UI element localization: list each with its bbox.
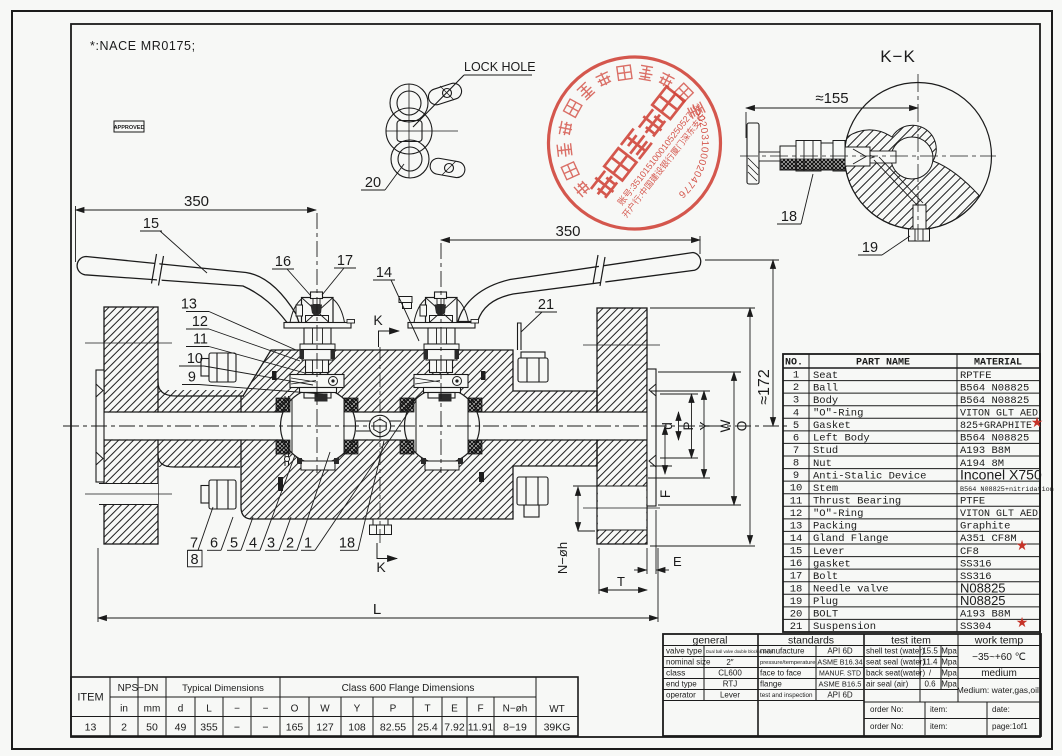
- svg-text:LOCK HOLE: LOCK HOLE: [464, 60, 536, 74]
- svg-text:N−øh: N−øh: [555, 542, 570, 574]
- svg-text:face to face: face to face: [760, 669, 802, 678]
- bottom plug: [913, 205, 926, 229]
- svg-text:Seat: Seat: [813, 370, 838, 382]
- handle socket flares: [414, 299, 469, 323]
- svg-text:Typical Dimensions: Typical Dimensions: [182, 683, 264, 694]
- body joint gasket: [285, 396, 290, 466]
- svg-text:ASME B16.5: ASME B16.5: [819, 680, 862, 689]
- svg-text:MATERIAL: MATERIAL: [974, 358, 1022, 369]
- upper-right stud+nut: [521, 352, 545, 358]
- svg-text:25.4: 25.4: [417, 722, 438, 734]
- svg-text:test item: test item: [891, 635, 931, 647]
- svg-text:nominal size: nominal size: [666, 658, 711, 667]
- svg-text:O: O: [735, 421, 750, 432]
- svg-text:Graphite: Graphite: [960, 521, 1010, 533]
- svg-text:−: −: [262, 722, 268, 734]
- ball left: [281, 389, 356, 464]
- svg-text:Stud: Stud: [813, 445, 838, 457]
- svg-text:15: 15: [790, 546, 803, 558]
- svg-text:2: 2: [286, 536, 294, 552]
- svg-text:0.6: 0.6: [924, 680, 936, 689]
- valve body block: [241, 350, 597, 519]
- needle channel: [846, 151, 896, 163]
- svg-text:★: ★: [1016, 537, 1029, 553]
- svg-text:NPS−DN: NPS−DN: [118, 683, 159, 694]
- suspension bracket 21: [518, 323, 522, 350]
- svg-text:A193 B8M: A193 B8M: [960, 609, 1010, 621]
- svg-text:18: 18: [781, 209, 797, 225]
- packing area: [302, 350, 333, 361]
- seat rings (dark crosshatch): [276, 398, 482, 454]
- svg-text:mm: mm: [144, 704, 161, 715]
- svg-text:Bolt: Bolt: [813, 571, 838, 583]
- svg-text:11.91: 11.91: [468, 722, 494, 734]
- svg-text:Needle valve: Needle valve: [813, 584, 889, 596]
- left flange neck hub: [158, 390, 243, 467]
- left flange raised face: [96, 370, 104, 482]
- svg-text:RTJ: RTJ: [723, 680, 738, 689]
- svg-text:Suspension: Suspension: [813, 621, 876, 633]
- lever 15 left: [77, 257, 299, 323]
- svg-text:shell test (water): shell test (water): [866, 647, 925, 656]
- svg-text:W: W: [718, 419, 733, 432]
- svg-text:127: 127: [316, 722, 334, 734]
- svg-text:gasket: gasket: [813, 558, 851, 570]
- svg-text:8: 8: [793, 458, 799, 470]
- svg-text:P: P: [390, 704, 397, 715]
- svg-text:Medium: water,gas,oil.: Medium: water,gas,oil.: [957, 685, 1042, 695]
- svg-text:order No:: order No:: [870, 705, 903, 714]
- svg-text:P: P: [681, 421, 696, 430]
- svg-text:N08825: N08825: [960, 593, 1006, 608]
- svg-text:standards: standards: [788, 635, 834, 647]
- svg-text:item:: item:: [930, 722, 947, 731]
- svg-text:WT: WT: [549, 704, 565, 715]
- svg-text:″O″-Ring: ″O″-Ring: [813, 508, 863, 520]
- gland body: [302, 298, 334, 327]
- svg-text:K−K: K−K: [880, 47, 916, 66]
- neck bottom edge: [158, 455, 240, 467]
- svg-text:CL600: CL600: [718, 669, 742, 678]
- ball seat faces: [292, 399, 468, 453]
- dim P: [691, 394, 693, 458]
- svg-text:7: 7: [190, 536, 198, 552]
- ball trunnion plates: [301, 461, 335, 470]
- svg-text:valve type: valve type: [666, 647, 703, 656]
- lever 15 right (stem 2): [458, 253, 701, 322]
- svg-text:pressure/temperature: pressure/temperature: [760, 660, 815, 666]
- svg-text:19: 19: [790, 596, 803, 608]
- mounting plate: [408, 323, 475, 329]
- svg-text:Lever: Lever: [720, 691, 740, 700]
- dim W: [733, 372, 735, 505]
- svg-text:order No:: order No:: [870, 722, 903, 731]
- stem neck: [430, 360, 453, 373]
- svg-text:5: 5: [230, 536, 238, 552]
- svg-text:B564 N08825: B564 N08825: [960, 382, 1029, 394]
- stem neck: [306, 360, 329, 373]
- svg-text:manufacture: manufacture: [760, 647, 805, 656]
- svg-text:17: 17: [337, 253, 353, 269]
- approved stamp box: [114, 121, 145, 132]
- svg-text:A193 B8M: A193 B8M: [960, 445, 1010, 457]
- dim L: [98, 617, 658, 619]
- svg-text:11: 11: [193, 332, 208, 348]
- svg-text:20: 20: [365, 175, 381, 191]
- svg-text:14: 14: [790, 533, 803, 545]
- svg-text:B564 N08825: B564 N08825: [960, 433, 1029, 445]
- svg-text:Mpa: Mpa: [941, 680, 957, 689]
- svg-text:*:NACE MR0175;: *:NACE MR0175;: [90, 39, 196, 53]
- svg-text:Plug: Plug: [813, 596, 838, 608]
- svg-text:12: 12: [790, 508, 803, 520]
- svg-text:12: 12: [192, 314, 208, 330]
- svg-text:1: 1: [793, 370, 799, 382]
- ball right: [405, 389, 480, 464]
- svg-text:10: 10: [187, 351, 203, 367]
- svg-text:16: 16: [790, 558, 803, 570]
- needle valve assembly: [747, 123, 759, 184]
- dim E: [634, 569, 647, 571]
- svg-text:item:: item:: [930, 705, 947, 714]
- svg-text:back seat(water): back seat(water): [866, 669, 925, 678]
- svg-text:15.5: 15.5: [922, 647, 938, 656]
- packing area: [426, 350, 457, 361]
- stop bolt: [435, 292, 447, 299]
- stem adapter: [428, 393, 455, 399]
- svg-text:page:1of1: page:1of1: [992, 722, 1028, 731]
- svg-text:15: 15: [143, 216, 159, 232]
- svg-text:NO.: NO.: [785, 358, 803, 369]
- stem adapter: [304, 393, 331, 399]
- svg-text:9: 9: [793, 470, 799, 482]
- svg-text:10: 10: [790, 483, 803, 495]
- svg-text:test and inspection: test and inspection: [760, 692, 813, 699]
- svg-text:N−øh: N−øh: [503, 704, 528, 715]
- svg-text:APPROVED: APPROVED: [114, 125, 145, 131]
- svg-text:air seal (air): air seal (air): [866, 680, 909, 689]
- svg-text:O: O: [291, 704, 299, 715]
- svg-text:11: 11: [790, 495, 803, 507]
- svg-text:Inconel X750: Inconel X750: [960, 467, 1042, 483]
- dim ~155: [746, 107, 918, 109]
- lower-left stud+nut: [201, 486, 209, 504]
- svg-text:18: 18: [339, 536, 355, 552]
- svg-text:A351 CF8M: A351 CF8M: [960, 533, 1017, 545]
- svg-text:d: d: [178, 704, 184, 715]
- svg-text:T: T: [424, 704, 430, 715]
- svg-text:4: 4: [793, 407, 799, 419]
- svg-text:≈172: ≈172: [756, 369, 773, 405]
- svg-text:MANUF. STD: MANUF. STD: [819, 671, 861, 678]
- bottom drain plug: [373, 519, 388, 525]
- svg-text:BOLT: BOLT: [813, 609, 838, 621]
- body wall crescent: [845, 125, 980, 229]
- left flange disc: [104, 307, 158, 544]
- svg-text:350: 350: [184, 193, 209, 210]
- svg-text:E: E: [451, 704, 458, 715]
- svg-text:4: 4: [249, 536, 257, 552]
- svg-text:★: ★: [1031, 414, 1044, 430]
- svg-text:16: 16: [275, 254, 291, 270]
- svg-text:PART NAME: PART NAME: [856, 358, 910, 369]
- svg-text:B564 N08825+nitridation: B564 N08825+nitridation: [960, 486, 1054, 494]
- svg-text:6: 6: [793, 432, 799, 444]
- svg-text:165: 165: [286, 722, 304, 734]
- dim T: [599, 589, 647, 591]
- svg-text:Stem: Stem: [813, 483, 838, 495]
- svg-text:ITEM: ITEM: [77, 692, 103, 704]
- svg-text:18: 18: [790, 583, 803, 595]
- bore channel: [96, 413, 656, 440]
- callout leader lines: [140, 231, 557, 567]
- svg-text:8: 8: [190, 552, 198, 568]
- stop bolt: [311, 292, 323, 299]
- dim F: [664, 426, 666, 474]
- svg-text:6: 6: [210, 536, 218, 552]
- dim N-oh: [577, 487, 579, 531]
- svg-text:seat seal (water): seat seal (water): [866, 658, 925, 667]
- svg-text:L: L: [206, 704, 212, 715]
- left flange bolt channel: [99, 484, 158, 505]
- svg-text:Left Body: Left Body: [813, 433, 870, 445]
- svg-text:825+GRAPHITE: 825+GRAPHITE: [960, 421, 1032, 432]
- dim Y: [703, 391, 705, 478]
- dim 350 left: [76, 209, 317, 211]
- right flange disc: [597, 308, 647, 544]
- svg-text:T: T: [617, 574, 625, 589]
- svg-text:flange: flange: [760, 680, 782, 689]
- svg-text:7.92: 7.92: [444, 722, 465, 734]
- centerlines: [740, 155, 996, 157]
- svg-text:class: class: [666, 668, 685, 678]
- svg-text:19: 19: [862, 240, 878, 256]
- svg-text:−: −: [234, 704, 240, 715]
- svg-text:Class 600 Flange Dimensions: Class 600 Flange Dimensions: [342, 683, 475, 694]
- svg-text:−: −: [234, 722, 240, 734]
- dim 350 right: [441, 239, 700, 241]
- svg-text:5: 5: [793, 420, 799, 432]
- svg-text:VITON GLT AED: VITON GLT AED: [960, 409, 1038, 420]
- svg-text:≈155: ≈155: [815, 90, 848, 107]
- svg-text:9: 9: [188, 370, 196, 386]
- svg-text:F: F: [477, 704, 483, 715]
- needle valve port (centre): [356, 420, 401, 422]
- svg-text:Anti-Stalic Device: Anti-Stalic Device: [813, 470, 926, 482]
- gland body: [426, 298, 458, 327]
- right flange raised face: [647, 369, 656, 506]
- svg-text:11.4: 11.4: [923, 658, 939, 667]
- svg-text:14: 14: [376, 265, 392, 281]
- svg-text:★: ★: [1016, 614, 1029, 630]
- svg-text:VITON GLT AED: VITON GLT AED: [960, 509, 1038, 520]
- mounting plate: [284, 323, 351, 329]
- svg-text:13: 13: [181, 297, 197, 313]
- svg-text:date:: date:: [992, 705, 1010, 714]
- svg-text:8−19: 8−19: [503, 722, 527, 734]
- svg-text:work temp: work temp: [974, 635, 1024, 647]
- gland flange: [290, 375, 344, 388]
- red company seal stamp: [514, 22, 755, 263]
- neck top edge: [158, 382, 244, 396]
- svg-text:Nut: Nut: [813, 458, 832, 470]
- dim d: [678, 412, 680, 440]
- svg-text:Y: Y: [354, 704, 361, 715]
- svg-text:SS316: SS316: [960, 558, 992, 570]
- svg-text:49: 49: [175, 722, 187, 734]
- svg-text:ASME B16.34: ASME B16.34: [817, 658, 862, 667]
- lower-right stud+nut: [524, 505, 539, 517]
- svg-text:d: d: [660, 422, 675, 430]
- svg-text:50: 50: [146, 722, 158, 734]
- svg-text:medium: medium: [981, 668, 1017, 679]
- svg-text:B564 N08825: B564 N08825: [960, 395, 1029, 407]
- svg-text:Y: Y: [698, 421, 713, 430]
- svg-text:RPTFE: RPTFE: [960, 370, 992, 382]
- svg-text:Gland Flange: Gland Flange: [813, 533, 889, 545]
- svg-text:SS304: SS304: [960, 621, 992, 633]
- svg-text:−: −: [263, 704, 269, 715]
- svg-text:3: 3: [267, 536, 275, 552]
- svg-text:Mpa: Mpa: [941, 669, 957, 678]
- svg-text:W: W: [320, 704, 330, 715]
- diagonal passage to plug: [874, 157, 923, 206]
- svg-text:13: 13: [85, 722, 97, 734]
- gland flange: [414, 375, 468, 388]
- svg-text:K: K: [376, 559, 386, 575]
- svg-text:end type: end type: [666, 680, 697, 689]
- svg-text:K: K: [373, 312, 383, 328]
- svg-text:API 6D: API 6D: [827, 691, 853, 700]
- svg-text:F: F: [658, 490, 673, 498]
- svg-text:Body: Body: [813, 395, 838, 407]
- svg-text:in: in: [120, 704, 128, 715]
- svg-text:2: 2: [793, 382, 799, 394]
- svg-text:2″: 2″: [726, 658, 733, 667]
- svg-text:Ball: Ball: [813, 382, 838, 394]
- svg-text:108: 108: [348, 722, 366, 734]
- right flange bolt channel: [598, 486, 647, 530]
- dim ~172: [772, 260, 774, 426]
- handle socket flares: [290, 299, 345, 323]
- svg-text:13: 13: [790, 520, 803, 532]
- svg-text:17: 17: [790, 571, 803, 583]
- svg-text:7: 7: [793, 445, 799, 457]
- upper-left stud+nut: [201, 359, 209, 377]
- svg-text:Thrust Bearing: Thrust Bearing: [813, 496, 901, 508]
- svg-text:21: 21: [790, 621, 803, 633]
- svg-text:Packing: Packing: [813, 521, 857, 533]
- svg-text:″O″-Ring: ″O″-Ring: [813, 408, 863, 420]
- svg-text:L: L: [373, 601, 381, 618]
- svg-text:E: E: [673, 554, 682, 569]
- svg-text:2: 2: [121, 722, 127, 734]
- svg-text:21: 21: [538, 297, 554, 313]
- callouts 18 19: [777, 223, 801, 225]
- svg-text:82.55: 82.55: [380, 722, 406, 734]
- svg-text:Mpa: Mpa: [941, 647, 957, 656]
- svg-text:CF8: CF8: [960, 546, 979, 558]
- svg-text:Mpa: Mpa: [941, 658, 957, 667]
- bonnet: [304, 328, 331, 344]
- stamp outer ring: [514, 22, 755, 263]
- svg-text:350: 350: [555, 223, 580, 240]
- svg-text:Gasket: Gasket: [813, 420, 851, 432]
- svg-text:39KG: 39KG: [544, 722, 571, 734]
- svg-text:operator: operator: [666, 691, 696, 700]
- bonnet: [428, 328, 455, 344]
- svg-text:20: 20: [790, 608, 803, 620]
- svg-text:355: 355: [200, 722, 218, 734]
- svg-text:API 6D: API 6D: [827, 647, 853, 656]
- svg-text:Lever: Lever: [813, 546, 845, 558]
- svg-text:general: general: [692, 635, 727, 647]
- svg-text:3: 3: [793, 395, 799, 407]
- svg-text:−35~+60 ℃: −35~+60 ℃: [972, 652, 1026, 663]
- svg-text:PTFE: PTFE: [960, 496, 985, 508]
- svg-text:1: 1: [304, 536, 312, 552]
- dim O: [749, 308, 751, 544]
